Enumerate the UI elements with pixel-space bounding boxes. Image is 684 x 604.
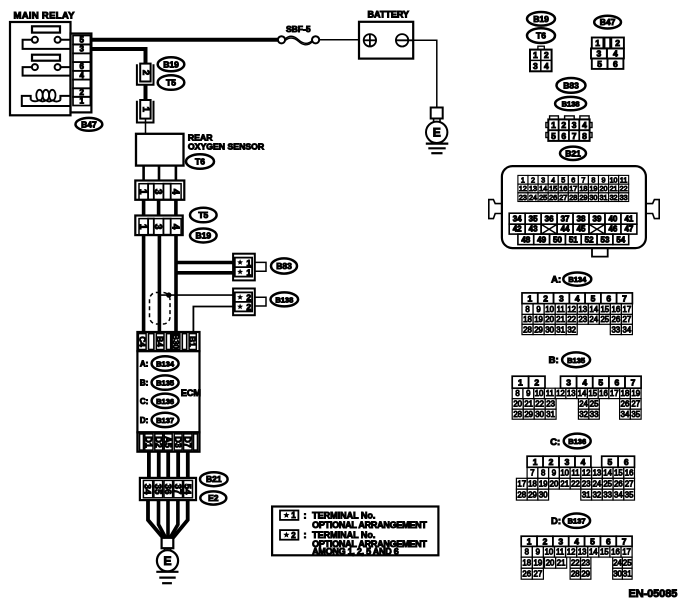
svg-text:23: 23 [582,480,591,489]
svg-text:22: 22 [567,315,576,324]
svg-text:7: 7 [631,377,636,387]
connector label B21 [200,472,228,486]
wire branch to B83 terminal 2 [176,271,234,275]
svg-text:17: 17 [610,389,619,398]
svg-text:B134: B134 [156,360,175,369]
svg-text:2: 2 [534,377,539,387]
legend star2 entry [280,530,427,557]
svg-text:26: 26 [621,400,630,409]
svg-text:5: 5 [597,59,602,69]
svg-text:3: 3 [566,377,571,387]
wire pin2 to pin1 [144,85,148,101]
pin view connector B134 grid [522,293,632,335]
svg-text:46: 46 [608,225,617,234]
svg-text:22: 22 [571,558,580,567]
svg-text:6: 6 [606,536,611,546]
connector T6 pins 1,3,4 [135,181,184,200]
connector B138 optional terminals [233,289,266,316]
svg-text:5: 5 [590,536,595,546]
battery [359,22,413,59]
svg-text:D7: D7 [183,436,193,448]
svg-text:33: 33 [590,410,599,419]
connector label B47 [76,118,103,131]
svg-text:11: 11 [620,175,627,184]
fuse SBF-5 [278,36,319,45]
svg-text:1: 1 [551,120,556,130]
svg-text:29: 29 [579,193,587,202]
svg-text:34: 34 [623,325,632,334]
wire pin1 to oxygen sensor [145,119,147,134]
svg-text:48: 48 [521,235,530,244]
svg-text:34: 34 [614,490,623,499]
svg-text:26: 26 [549,193,557,202]
svg-text:12: 12 [519,184,527,193]
svg-text:B83: B83 [276,261,292,271]
optional arrangement dashed box [150,293,171,325]
svg-text:17: 17 [517,480,526,489]
svg-text:18: 18 [522,558,531,567]
svg-text:4: 4 [582,377,587,387]
svg-text:A5: A5 [163,436,173,448]
svg-text:10: 10 [560,469,569,478]
svg-text:18: 18 [528,480,537,489]
svg-text:2: 2 [543,536,548,546]
svg-text:8: 8 [582,131,587,141]
svg-text:27: 27 [623,315,632,324]
svg-text:8: 8 [591,175,595,184]
svg-text:1: 1 [533,457,538,467]
svg-text:41: 41 [624,215,633,224]
svg-text:35: 35 [152,484,163,495]
svg-text:1: 1 [528,293,533,303]
wires T6 to T5/B19 [144,200,176,216]
svg-text:17: 17 [623,305,632,314]
pin view connector T6 [530,46,552,71]
svg-text:29: 29 [528,490,537,499]
svg-text:20: 20 [550,480,559,489]
pin view B21 upper grid [518,175,629,201]
svg-text:10: 10 [535,389,544,398]
svg-text:24: 24 [579,400,588,409]
svg-text:6: 6 [606,293,611,303]
svg-text:5: 5 [551,131,556,141]
svg-text:T5: T5 [198,210,208,220]
svg-text:9: 9 [526,389,530,398]
svg-text:12: 12 [567,305,576,314]
wire relay pin5 to fuse SBF-5 [91,38,277,42]
svg-text:22: 22 [571,480,580,489]
svg-text:E2: E2 [208,493,219,503]
svg-text:21: 21 [610,184,618,193]
svg-text:37: 37 [561,215,570,224]
pin view label T6 [527,28,555,43]
svg-text:3: 3 [565,457,570,467]
svg-text:23: 23 [581,558,590,567]
svg-text:25: 25 [603,480,612,489]
svg-text:52: 52 [585,235,594,244]
svg-text:9: 9 [602,175,606,184]
svg-text:B30: B30 [171,334,180,349]
svg-text:D1: D1 [144,436,154,448]
svg-text:32: 32 [579,410,588,419]
svg-text:B135: B135 [567,356,585,365]
svg-text:36: 36 [545,215,554,224]
svg-text:32: 32 [593,490,602,499]
svg-text:43: 43 [529,225,538,234]
svg-text:5: 5 [561,175,565,184]
svg-text:B:: B: [140,379,148,388]
pin view label B83 [557,78,586,93]
svg-text:23: 23 [519,193,527,202]
svg-text:13: 13 [578,548,587,557]
svg-text:2: 2 [291,531,296,540]
svg-text:B47: B47 [81,119,97,129]
svg-text:B19: B19 [163,59,179,69]
junction dot [166,292,171,297]
connector label B19 [158,57,185,71]
wire 2 sensor to ECM B4 [158,235,162,334]
svg-text:25: 25 [600,315,609,324]
svg-text:5: 5 [598,377,603,387]
svg-text:30: 30 [545,325,554,334]
svg-text:4: 4 [169,189,180,195]
pin view connector B136 grid [516,456,634,500]
svg-text:29: 29 [581,570,590,579]
svg-text:6: 6 [561,131,566,141]
relay contact 1 fixed bar [32,26,60,32]
svg-text:8: 8 [525,305,529,314]
svg-text:21: 21 [557,558,566,567]
svg-text:27: 27 [631,400,640,409]
svg-text:4: 4 [581,457,586,467]
svg-text:29: 29 [524,410,533,419]
svg-text:4: 4 [613,48,618,58]
svg-text:2: 2 [246,293,251,303]
svg-text:11: 11 [571,469,579,478]
svg-text:T6: T6 [536,31,546,41]
svg-text:1: 1 [137,224,148,230]
pin view label B19 [527,12,555,26]
svg-text:33: 33 [603,490,612,499]
svg-text:2: 2 [549,457,554,467]
svg-text:24: 24 [589,315,598,324]
svg-text:23: 23 [578,315,587,324]
svg-text:10: 10 [545,548,554,557]
svg-text:31: 31 [582,490,591,499]
svg-text:15: 15 [614,469,623,478]
svg-text:11: 11 [556,548,564,557]
svg-text:B19: B19 [533,14,549,24]
svg-text:OXYGEN SENSOR: OXYGEN SENSOR [188,141,265,151]
ECM body [137,351,199,432]
svg-text:40: 40 [608,215,617,224]
svg-text:17: 17 [622,548,631,557]
svg-text:44: 44 [561,225,570,234]
wire branch to B83 terminal 1 [176,261,234,265]
svg-text:24: 24 [529,193,537,202]
svg-text:2: 2 [615,38,620,48]
svg-text:16: 16 [611,548,620,557]
svg-text:35: 35 [625,490,634,499]
svg-text:22: 22 [620,184,628,193]
svg-text:1: 1 [140,107,151,113]
svg-text:C:: C: [550,437,560,448]
svg-text:31: 31 [623,570,632,579]
svg-text:T5: T5 [166,78,176,88]
svg-text:28: 28 [569,193,577,202]
svg-text:4: 4 [79,71,84,80]
connector label B138 [271,292,299,306]
svg-text:28: 28 [513,410,522,419]
svg-text:25: 25 [539,193,547,202]
svg-text:1: 1 [518,377,523,387]
svg-text:19: 19 [589,184,597,193]
svg-text:T6: T6 [195,157,205,167]
svg-text:5: 5 [591,293,596,303]
svg-text:3: 3 [79,45,84,54]
ECM connector D B137 [152,413,179,427]
svg-text:13: 13 [578,305,587,314]
rear oxygen sensor [136,134,184,166]
wire B138 terminal to ECM B1 [193,307,234,335]
main relay K1 box [10,22,71,115]
svg-text:21: 21 [560,480,569,489]
svg-text:20: 20 [600,184,608,193]
svg-text:1: 1 [533,50,538,60]
svg-text:SBF-5: SBF-5 [286,24,311,34]
svg-text:B21: B21 [206,474,222,484]
pin view oval B136 [564,434,591,449]
svg-text:C:: C: [140,397,148,406]
svg-text:15: 15 [549,184,557,193]
svg-text:B4: B4 [155,336,164,347]
wire battery to ground [413,40,437,107]
svg-text:A:: A: [551,274,561,285]
svg-text:19: 19 [534,558,543,567]
svg-text:B83: B83 [563,80,579,90]
svg-text:6: 6 [613,59,618,69]
svg-text:B136: B136 [568,437,586,446]
svg-text:17: 17 [569,184,577,193]
svg-text:2: 2 [246,302,251,312]
svg-text:11: 11 [557,305,565,314]
svg-text:9: 9 [536,548,540,557]
svg-text:B19: B19 [196,231,212,241]
pin view connector B83/B138 [546,116,592,141]
svg-text:7: 7 [622,536,627,546]
svg-text:1: 1 [291,511,296,520]
svg-text:47: 47 [624,225,633,234]
svg-text:53: 53 [601,235,610,244]
connector B47 pin strip [71,34,92,113]
sensor legs [144,166,176,181]
svg-text:8: 8 [515,389,519,398]
svg-text:BATTERY: BATTERY [368,10,410,20]
svg-text:30: 30 [535,410,544,419]
rear oxygen sensor label [188,133,265,152]
svg-text:38: 38 [577,215,586,224]
connector B83 optional terminals [233,254,266,281]
svg-text:D:: D: [551,516,561,527]
svg-text:B138: B138 [562,100,580,109]
svg-text:54: 54 [616,235,625,244]
ECM top pin row [137,332,199,351]
svg-text:23: 23 [546,400,555,409]
pin view label B21 [560,147,586,160]
svg-text:4: 4 [575,293,580,303]
svg-text:12: 12 [567,548,576,557]
svg-text:B1: B1 [188,336,197,347]
svg-text:32: 32 [610,193,618,202]
svg-text:32: 32 [567,325,576,334]
relay contact 2 switch [23,64,71,76]
svg-text:1: 1 [246,258,251,268]
svg-text:1: 1 [521,175,525,184]
svg-text:1: 1 [79,97,84,106]
svg-text:21: 21 [524,400,533,409]
ground E at ECM [156,538,178,583]
svg-text:7: 7 [572,131,577,141]
connector T5/B19 pin 2 [137,64,154,85]
svg-text:D2: D2 [154,436,164,448]
svg-text:12: 12 [556,389,565,398]
svg-text:7: 7 [581,175,585,184]
pin view B21 lower grid [509,213,637,244]
svg-text:3: 3 [597,48,602,58]
svg-text:7: 7 [622,293,627,303]
svg-text:12: 12 [582,469,591,478]
svg-text:14: 14 [589,548,598,557]
relay coil [22,90,71,106]
svg-text:20: 20 [545,315,554,324]
svg-text::: : [304,510,307,520]
svg-text:B135: B135 [156,379,174,388]
svg-text:28: 28 [523,325,532,334]
ECM connector B B135 [152,375,179,389]
connector label T6 [186,154,214,168]
svg-text:1: 1 [595,38,600,48]
svg-text:15: 15 [600,548,609,557]
svg-text:16: 16 [559,184,567,193]
svg-text:A:: A: [140,360,148,369]
svg-text:29: 29 [534,325,543,334]
svg-text:15: 15 [600,305,609,314]
svg-text:45: 45 [577,225,586,234]
svg-text:B134: B134 [568,275,587,284]
svg-text:27: 27 [625,480,634,489]
legend box [272,507,438,556]
wires ECM to chassis connector [149,452,188,478]
svg-text:34: 34 [621,410,630,419]
svg-text:31: 31 [556,325,565,334]
svg-text:1: 1 [137,189,148,195]
svg-text:D:: D: [140,416,148,425]
svg-text:26: 26 [522,570,531,579]
svg-text:14: 14 [589,305,598,314]
svg-text:33: 33 [620,193,628,202]
svg-text:50: 50 [553,235,562,244]
svg-text:2: 2 [543,293,548,303]
svg-text:19: 19 [539,480,548,489]
svg-text:D3: D3 [173,436,183,448]
svg-text:B137: B137 [568,517,586,526]
pin view label B138 [555,97,586,110]
svg-text:1: 1 [246,267,251,277]
connector T5/B19 pins 1,3,4 [135,216,182,236]
svg-text:25: 25 [590,400,599,409]
svg-text:2: 2 [140,70,151,75]
svg-text:B47: B47 [600,17,616,27]
svg-text:19: 19 [534,315,543,324]
connector T5/B19 pin 1 [137,100,154,123]
svg-text:18: 18 [579,184,587,193]
pin view oval B134 [563,273,591,286]
svg-text:13: 13 [529,184,537,193]
svg-text:14: 14 [539,184,547,193]
connector label B83 [271,258,297,273]
wire 3 sensor to ECM B30 [174,235,178,334]
svg-text:22: 22 [535,400,544,409]
svg-text:31: 31 [600,193,608,202]
svg-text:E: E [163,554,171,568]
svg-text:3: 3 [533,61,538,71]
svg-text:2: 2 [561,120,566,130]
svg-text:5: 5 [79,36,84,45]
svg-text:27: 27 [534,570,543,579]
svg-text:2: 2 [531,175,535,184]
svg-text:C4: C4 [137,336,146,347]
svg-text:8: 8 [525,548,529,557]
ECM connector A B134 [152,356,179,370]
svg-text:21: 21 [556,315,565,324]
pin view label B47 [594,16,621,29]
svg-text:EN-05085: EN-05085 [629,588,678,600]
svg-text:ECM: ECM [181,388,201,398]
svg-text:B138: B138 [275,295,293,304]
svg-text:27: 27 [559,193,567,202]
svg-text:37: 37 [172,484,183,495]
wire 1 sensor to ECM C4 [142,235,146,334]
pin view oval B137 [563,514,590,528]
relay contact 2 fixed bar [32,55,60,61]
svg-text:39: 39 [593,215,602,224]
svg-text:35: 35 [631,410,640,419]
svg-text:13: 13 [567,389,576,398]
svg-text:9: 9 [552,469,556,478]
ECM bottom pin row [137,432,199,451]
svg-text:3: 3 [152,189,163,195]
svg-text:3: 3 [559,293,564,303]
svg-text:B21: B21 [565,148,581,158]
svg-text:6: 6 [615,377,620,387]
legend star1 entry [280,510,427,529]
svg-text:35: 35 [529,215,538,224]
svg-text:6: 6 [624,457,629,467]
svg-text:MAIN RELAY: MAIN RELAY [14,11,76,22]
svg-text:6: 6 [79,62,84,71]
svg-text:16: 16 [611,305,620,314]
svg-text:16: 16 [599,389,608,398]
svg-text:49: 49 [537,235,546,244]
svg-text:54: 54 [182,484,193,495]
svg-text:15: 15 [588,389,597,398]
svg-text:10: 10 [545,305,554,314]
pin view connector B47 [591,38,624,69]
ECM connector C B136 [152,394,179,408]
connector B21/E2 pins [140,478,196,500]
relay contact 1 switch [23,37,71,49]
svg-text:25: 25 [623,558,632,567]
